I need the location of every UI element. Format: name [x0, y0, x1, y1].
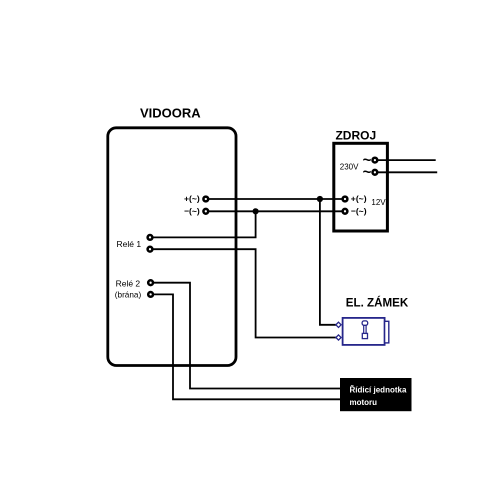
node junction A: [317, 196, 323, 202]
svg-text:VIDOORA: VIDOORA: [140, 106, 201, 121]
terminal zdroj +12V: [343, 197, 348, 202]
terminal rele1 a: [148, 235, 153, 240]
wire: [152, 211, 256, 237]
svg-text:Relé 2: Relé 2: [116, 278, 141, 288]
terminal vidoora +: [203, 197, 208, 202]
wire: [207, 210, 343, 212]
svg-text:EL. ZÁMEK: EL. ZÁMEK: [346, 296, 409, 309]
electric lock body: [343, 318, 385, 345]
terminal vidoora -: [203, 209, 208, 214]
lock key icon bit: [362, 333, 367, 338]
terminal rele2 b: [148, 292, 153, 297]
svg-text:Řídicí jednotka: Řídicí jednotka: [350, 386, 407, 395]
svg-text:−(~): −(~): [351, 206, 367, 216]
svg-text:−(~): −(~): [184, 206, 200, 216]
svg-text:Relé 1: Relé 1: [117, 239, 142, 249]
terminal rele1 b: [148, 247, 153, 252]
wire: [207, 198, 343, 200]
wire: [378, 171, 438, 173]
wire: [378, 159, 436, 161]
terminal zdroj ac 1: [373, 158, 378, 163]
svg-text:ZDROJ: ZDROJ: [335, 129, 376, 143]
terminal zdroj -12V: [343, 209, 348, 214]
svg-text:230V: 230V: [340, 163, 359, 172]
intercom unit VIDOORA box: [108, 128, 236, 366]
terminal rele2 a: [148, 280, 153, 285]
wire: [320, 199, 336, 325]
svg-text:(brána): (brána): [115, 291, 142, 300]
wire: [153, 294, 342, 399]
motor control unit box: [340, 378, 412, 411]
svg-text:12V: 12V: [371, 198, 386, 207]
terminal zdroj ac 2: [373, 170, 378, 175]
wire: [152, 249, 336, 337]
lock terminal diamond bottom: [336, 335, 341, 340]
wire: [153, 283, 342, 389]
svg-text:motoru: motoru: [350, 398, 378, 407]
lock terminal diamond top: [336, 322, 341, 327]
svg-text:+(~): +(~): [351, 194, 367, 204]
svg-text:+(~): +(~): [184, 194, 200, 204]
lock key icon head: [362, 321, 368, 325]
lock key icon shaft: [364, 325, 366, 333]
svg-text:~: ~: [363, 164, 372, 181]
power supply ZDROJ box: [334, 143, 388, 231]
electric lock side tab: [385, 321, 389, 343]
node junction B: [253, 208, 259, 214]
